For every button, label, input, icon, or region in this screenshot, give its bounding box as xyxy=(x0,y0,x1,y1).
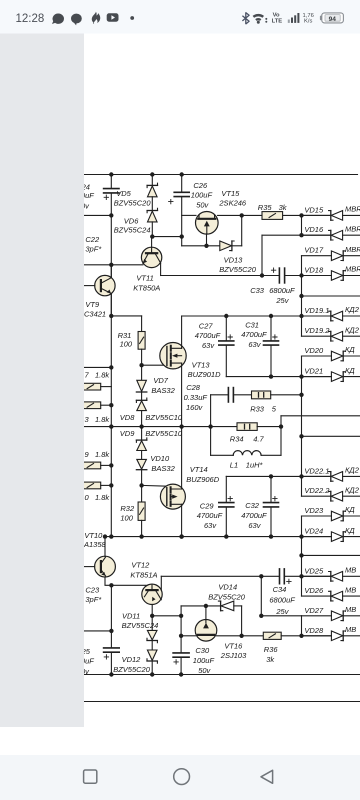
diode VD16 xyxy=(330,230,332,240)
wire xyxy=(181,635,195,637)
status icon youtube xyxy=(107,13,119,21)
wire xyxy=(302,255,332,257)
wire xyxy=(211,454,234,456)
diode VD14 xyxy=(220,601,222,611)
svg-text:VD19.2: VD19.2 xyxy=(304,326,330,335)
wire xyxy=(302,554,360,556)
wire xyxy=(270,346,272,377)
resistor R31 xyxy=(138,332,145,350)
svg-text:C23: C23 xyxy=(85,585,100,594)
wire xyxy=(302,475,331,477)
wire xyxy=(225,316,227,340)
diode VD19.2 xyxy=(330,331,332,341)
diode VD15 xyxy=(330,211,332,221)
wire xyxy=(261,615,301,617)
svg-text:КД2: КД2 xyxy=(345,305,360,314)
wire mid rail xyxy=(105,536,331,538)
svg-text:C32: C32 xyxy=(245,501,260,510)
wire stub left xyxy=(84,366,111,368)
svg-text:C26: C26 xyxy=(193,181,208,190)
diode VD21 xyxy=(331,372,342,382)
svg-text:R34: R34 xyxy=(230,435,244,444)
wire xyxy=(110,194,112,216)
wire xyxy=(210,395,212,456)
svg-text:BUZ901D: BUZ901D xyxy=(188,370,222,379)
wire base VT11 xyxy=(84,264,143,266)
junction xyxy=(139,363,143,367)
wire top rail xyxy=(84,174,358,176)
status icon wifi xyxy=(253,14,264,18)
wire xyxy=(302,495,331,497)
svg-text:КД: КД xyxy=(345,526,355,535)
svg-text:12:28: 12:28 xyxy=(16,13,45,25)
junction xyxy=(109,365,113,369)
svg-text:MBR: MBR xyxy=(345,265,360,274)
wire xyxy=(281,635,331,637)
diode VD27 xyxy=(331,611,342,621)
transistor VT12 xyxy=(142,584,162,604)
wire xyxy=(141,365,143,380)
wire xyxy=(271,394,302,396)
transistor VT15 xyxy=(196,212,219,235)
svg-text:BZV55C10: BZV55C10 xyxy=(145,413,183,422)
svg-text:C31: C31 xyxy=(245,321,259,330)
diode VD28 xyxy=(331,631,342,641)
svg-text:КД2: КД2 xyxy=(345,325,360,334)
svg-text:25v: 25v xyxy=(275,296,289,305)
junction xyxy=(180,172,184,176)
svg-text:100: 100 xyxy=(120,340,133,349)
svg-text:6800uF: 6800uF xyxy=(269,286,295,295)
wire xyxy=(343,536,360,538)
svg-text:VD7: VD7 xyxy=(153,376,168,385)
junction xyxy=(224,314,228,318)
diode VD26 xyxy=(330,591,332,601)
wire xyxy=(110,653,112,675)
svg-text:VD6: VD6 xyxy=(124,217,139,226)
diode VD23 xyxy=(331,511,342,521)
svg-text:63v: 63v xyxy=(248,340,261,349)
wire positive rail 63v xyxy=(182,315,331,317)
junction xyxy=(279,424,283,428)
svg-text:1.8k: 1.8k xyxy=(95,493,110,502)
wire source VT13 xyxy=(181,363,183,427)
wire xyxy=(270,316,272,340)
wire xyxy=(343,315,360,317)
wire xyxy=(141,520,143,536)
svg-text:VD17: VD17 xyxy=(304,246,324,255)
wire xyxy=(257,426,281,428)
wire xyxy=(343,376,360,378)
wire xyxy=(343,615,360,617)
svg-text:VT12: VT12 xyxy=(131,561,150,570)
wire emitter VT12 xyxy=(151,605,153,616)
junction xyxy=(259,614,263,618)
junction xyxy=(179,634,183,638)
junction xyxy=(109,263,113,267)
junction xyxy=(179,614,183,618)
junction xyxy=(109,672,113,676)
wire xyxy=(343,355,360,357)
junction xyxy=(139,424,143,428)
status icon chat bubble xyxy=(52,13,64,24)
wire xyxy=(151,641,153,651)
status icon dot xyxy=(130,16,134,20)
junction xyxy=(269,374,273,378)
resistor 1.8k row4 xyxy=(80,482,101,489)
zener VD5 xyxy=(147,184,157,186)
wire xyxy=(151,616,153,631)
wire xyxy=(141,316,143,332)
diode VD13 xyxy=(220,241,232,251)
wire xyxy=(182,245,220,247)
junction xyxy=(299,374,303,378)
wire output rail xyxy=(84,426,237,428)
wire gate VT15 xyxy=(206,234,208,246)
diode VD17 xyxy=(331,251,342,261)
wire xyxy=(343,635,360,637)
svg-text:КД2: КД2 xyxy=(345,485,360,494)
wire bus xyxy=(301,215,303,235)
wire xyxy=(280,416,282,456)
wire stub left xyxy=(84,214,111,216)
svg-text:КД: КД xyxy=(345,366,355,375)
wire xyxy=(141,411,143,427)
wire gate VT13 xyxy=(142,364,167,366)
svg-text:63v: 63v xyxy=(204,521,217,530)
svg-text:VD20: VD20 xyxy=(304,346,324,355)
wire xyxy=(151,661,153,675)
wire xyxy=(101,484,112,486)
junction xyxy=(204,604,208,608)
svg-text:MB: MB xyxy=(345,566,356,575)
wire xyxy=(302,635,332,637)
wire xyxy=(343,575,360,577)
svg-text:C28: C28 xyxy=(186,383,201,392)
zener VD9 xyxy=(136,439,146,441)
wire xyxy=(343,595,360,597)
junction xyxy=(109,463,113,467)
junction xyxy=(179,534,183,538)
junction xyxy=(299,474,303,478)
svg-text:1uH*: 1uH* xyxy=(246,461,264,470)
wire bottom rail 1 xyxy=(84,674,360,676)
svg-text:25v: 25v xyxy=(275,607,289,616)
wire xyxy=(343,234,360,236)
wire xyxy=(181,237,183,246)
svg-text:VT13: VT13 xyxy=(192,361,211,370)
junction xyxy=(299,233,303,237)
capacitor C25 xyxy=(104,647,120,649)
svg-text:6800uF: 6800uF xyxy=(269,595,295,604)
wire xyxy=(161,275,280,277)
junction xyxy=(299,534,303,538)
svg-text:R36: R36 xyxy=(264,645,279,654)
wire xyxy=(226,376,331,378)
wire xyxy=(343,495,360,497)
diode VD22.2 xyxy=(330,491,332,501)
junction xyxy=(150,234,154,238)
wire xyxy=(285,275,332,277)
wire xyxy=(343,255,360,257)
junction xyxy=(109,483,113,487)
wire xyxy=(302,275,332,277)
wire xyxy=(141,470,143,486)
wire collector VT9 xyxy=(110,265,112,278)
svg-text:63v: 63v xyxy=(248,521,261,530)
svg-text:BUZ906D: BUZ906D xyxy=(186,475,220,484)
wire xyxy=(270,508,272,537)
diode VD10 xyxy=(137,459,147,469)
svg-text:100uF: 100uF xyxy=(193,656,215,665)
svg-text:MB: MB xyxy=(345,625,356,634)
svg-text:VT15: VT15 xyxy=(221,189,240,198)
junction xyxy=(299,393,303,397)
junction xyxy=(139,483,143,487)
svg-text:C27: C27 xyxy=(199,322,214,331)
wire xyxy=(261,235,263,275)
svg-text:2SK246: 2SK246 xyxy=(218,198,247,207)
wire xyxy=(261,454,281,456)
svg-text:BZV55C20: BZV55C20 xyxy=(219,265,257,274)
wire xyxy=(284,575,331,577)
junction xyxy=(269,474,273,478)
wire xyxy=(302,615,332,617)
junction xyxy=(109,314,113,318)
wire emitter VT9 xyxy=(110,294,112,316)
status icon messages bubble xyxy=(71,14,82,26)
transistor VT11 xyxy=(141,247,161,267)
diode VD25 xyxy=(330,572,332,582)
junction xyxy=(150,172,154,176)
wire xyxy=(225,346,227,377)
wire xyxy=(110,175,112,189)
svg-text:LTE: LTE xyxy=(272,18,283,24)
junction xyxy=(109,213,113,217)
zener VD6 xyxy=(147,210,157,212)
wire xyxy=(180,658,182,675)
svg-text:3k: 3k xyxy=(279,203,288,212)
svg-text:100uF: 100uF xyxy=(191,190,213,199)
svg-text:100: 100 xyxy=(120,513,133,522)
svg-text:1.8k: 1.8k xyxy=(95,415,110,424)
svg-text:VD19.1: VD19.1 xyxy=(304,306,329,315)
diode VD7 xyxy=(137,380,147,391)
svg-text:VD21: VD21 xyxy=(304,367,323,376)
resistor R35 xyxy=(262,212,283,220)
svg-text:VD9: VD9 xyxy=(120,429,135,438)
svg-text:VD12: VD12 xyxy=(122,655,142,664)
junction xyxy=(299,213,303,217)
svg-text:VD5: VD5 xyxy=(116,189,131,198)
svg-text:K/s: K/s xyxy=(304,19,312,25)
status icon flame xyxy=(92,12,100,24)
svg-text:BAS32: BAS32 xyxy=(151,464,175,473)
junction xyxy=(269,314,273,318)
wire xyxy=(302,376,332,378)
svg-text:BZV55C10: BZV55C10 xyxy=(145,429,183,438)
nav circle button xyxy=(174,769,190,785)
junction xyxy=(139,534,143,538)
wire bus xyxy=(301,616,303,636)
svg-text:BZV55C20: BZV55C20 xyxy=(114,198,152,207)
wire base VT10 xyxy=(84,566,95,568)
wire xyxy=(281,415,360,417)
status icon signal bars xyxy=(288,13,300,23)
wire xyxy=(262,234,331,236)
wire xyxy=(141,427,143,441)
svg-text:C29: C29 xyxy=(200,502,215,511)
transistor VT14 xyxy=(160,484,185,509)
svg-text:R31: R31 xyxy=(118,331,132,340)
wire drain VT13 xyxy=(181,316,183,348)
junction xyxy=(109,172,113,176)
svg-text:VD8: VD8 xyxy=(120,413,135,422)
junction xyxy=(109,534,113,538)
svg-text:4700uF: 4700uF xyxy=(195,331,221,340)
diode VD19.1 xyxy=(330,311,332,321)
svg-text:50v: 50v xyxy=(196,200,209,209)
svg-text:L1: L1 xyxy=(230,461,238,470)
wire xyxy=(232,245,242,247)
wire xyxy=(161,575,279,577)
capacitor C30 xyxy=(173,652,189,654)
wire bus xyxy=(301,256,303,337)
transistor VT13 xyxy=(160,343,186,369)
wire xyxy=(234,605,242,607)
svg-text:VT11: VT11 xyxy=(136,273,153,282)
junction xyxy=(299,294,303,298)
svg-text:R32: R32 xyxy=(120,504,135,513)
wire xyxy=(151,222,153,237)
svg-text:BZV55C20: BZV55C20 xyxy=(208,592,246,601)
svg-text:КД: КД xyxy=(345,505,355,514)
svg-text:VT9: VT9 xyxy=(85,300,100,309)
wire xyxy=(226,475,330,477)
wire collector VT12 xyxy=(160,576,162,590)
svg-text:MBR: MBR xyxy=(345,245,360,254)
svg-text:VD16: VD16 xyxy=(304,225,324,234)
junction xyxy=(109,403,113,407)
wire drain VT14 xyxy=(181,427,183,489)
wire xyxy=(241,606,243,636)
wire xyxy=(182,214,196,216)
wire xyxy=(302,595,331,597)
wire xyxy=(181,175,183,192)
svg-text:A1358: A1358 xyxy=(83,540,107,549)
junction xyxy=(179,424,183,428)
wire xyxy=(343,214,360,216)
diode VD18 xyxy=(331,271,342,281)
wire xyxy=(217,635,264,637)
wire xyxy=(111,315,141,317)
wire bus xyxy=(301,356,303,496)
wire stub left xyxy=(84,630,111,632)
capacitor C34 xyxy=(279,569,281,584)
svg-text:КД2: КД2 xyxy=(345,466,360,475)
svg-text:VD14: VD14 xyxy=(218,582,237,591)
svg-text:KT850A: KT850A xyxy=(133,283,160,292)
wire xyxy=(180,606,182,616)
svg-text:BZV55C24: BZV55C24 xyxy=(114,226,151,235)
wire xyxy=(211,394,229,396)
wire xyxy=(141,485,143,502)
wire emitter VT10 xyxy=(105,577,146,585)
status icon bluetooth xyxy=(242,12,249,24)
junction xyxy=(109,424,113,428)
junction xyxy=(299,434,303,438)
transistor VT9 xyxy=(95,275,115,295)
svg-text:C33: C33 xyxy=(250,286,265,295)
capacitor C33 xyxy=(278,268,280,283)
wire xyxy=(101,404,112,406)
wire xyxy=(225,476,227,502)
status battery 94 xyxy=(322,13,344,23)
nav square button xyxy=(84,770,97,783)
wire xyxy=(343,335,360,337)
junction xyxy=(260,273,264,277)
svg-text:0.33uF: 0.33uF xyxy=(184,393,208,402)
junction xyxy=(109,629,113,633)
svg-text:MBR: MBR xyxy=(345,224,360,233)
junction xyxy=(269,534,273,538)
svg-text:4700uF: 4700uF xyxy=(241,330,267,339)
svg-text:4700uF: 4700uF xyxy=(241,511,267,520)
wire xyxy=(181,605,221,607)
resistor R33 xyxy=(252,391,271,399)
junction xyxy=(204,244,208,248)
wire xyxy=(180,616,182,653)
resistor 1.8k row1 xyxy=(80,383,101,390)
svg-text:BAS32: BAS32 xyxy=(151,386,175,395)
junction xyxy=(208,424,212,428)
svg-text:VD10: VD10 xyxy=(150,454,170,463)
svg-text:1.8k: 1.8k xyxy=(95,450,110,459)
wire emitter VT11 xyxy=(160,263,162,276)
wire xyxy=(151,197,153,211)
wire xyxy=(302,295,360,297)
svg-text:VD22.1: VD22.1 xyxy=(304,466,329,475)
svg-text:3pF*: 3pF* xyxy=(85,595,102,604)
svg-text:VD26: VD26 xyxy=(304,586,324,595)
junction xyxy=(259,574,263,578)
svg-text:VD15: VD15 xyxy=(304,205,324,214)
junction xyxy=(150,614,154,618)
svg-text:C3421: C3421 xyxy=(84,309,106,318)
wire xyxy=(343,475,360,477)
junction xyxy=(224,534,228,538)
svg-text:VD11: VD11 xyxy=(122,611,140,620)
svg-text:VD22.2: VD22.2 xyxy=(304,486,330,495)
navigation bar background xyxy=(0,755,360,800)
wire xyxy=(343,515,360,517)
wire xyxy=(141,451,143,460)
wire xyxy=(101,386,112,388)
svg-text:VD27: VD27 xyxy=(304,606,324,615)
page gray margin xyxy=(0,34,84,728)
svg-text:VT14: VT14 xyxy=(190,465,208,474)
wire xyxy=(302,335,331,337)
svg-text:4.7: 4.7 xyxy=(253,435,264,444)
wire left vertical rail xyxy=(110,215,112,536)
junction xyxy=(299,574,303,578)
junction xyxy=(179,534,183,538)
svg-text:C22: C22 xyxy=(85,235,100,244)
svg-text:50v: 50v xyxy=(198,666,211,675)
junction xyxy=(299,314,303,318)
wire collector VT10 xyxy=(104,537,106,557)
wire xyxy=(225,508,227,537)
